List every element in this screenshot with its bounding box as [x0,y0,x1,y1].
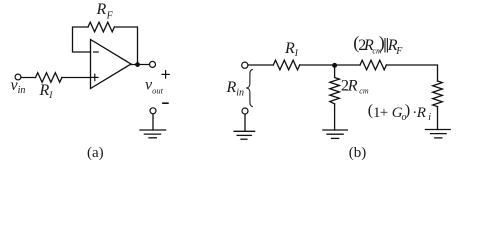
label parallel bars [385,38,387,53]
op-amp U1 [91,40,132,89]
op-amp plus pin label [92,74,98,80]
node: junction [332,63,337,68]
wire (output) [131,64,149,66]
label minus (output polarity) [163,102,168,104]
svg-text:(b): (b) [349,145,367,161]
wire [21,77,36,79]
svg-text:(1+Go)·Ri: (1+Go)·Ri [368,102,431,123]
wire [334,68,336,78]
resistor (1+Go)Ri [433,81,443,107]
terminal: input (b) [242,62,248,68]
wire [334,104,336,130]
ground (left, b) [234,131,255,139]
wire (inverting input from feedback) [73,27,91,52]
brace [246,69,253,106]
wire [114,27,137,65]
terminal: v_out plus [150,61,156,67]
ground (middle, b) [323,130,347,138]
resistor RI [36,73,62,83]
wire [300,64,360,66]
resistor RF [88,22,114,32]
wire [152,114,154,130]
node: output junction [135,62,140,67]
wire [386,65,437,81]
ground (right, b) [425,130,450,138]
terminal: v_out minus [150,108,156,114]
op-amp minus pin label [94,51,99,53]
svg-text:(a): (a) [87,145,104,161]
label plus (output polarity) [162,71,169,78]
ground (a) [140,130,166,138]
wire [62,77,91,79]
terminal: v_in input [15,74,21,80]
wire [437,107,439,130]
terminal: reference (b) [242,108,248,114]
resistor (2Rcm)parRF [360,60,386,70]
resistor RI (b) [273,60,299,70]
wire [248,64,273,66]
resistor 2Rcm [330,78,340,104]
wire [244,114,246,131]
